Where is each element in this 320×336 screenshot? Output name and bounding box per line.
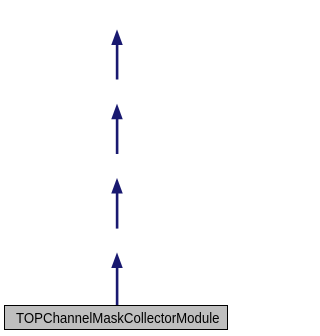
inheritance arrow 3: [111, 178, 123, 229]
node TOPChannelMaskCollectorModule (current class box): [5, 306, 228, 330]
svg-text:TOPChannelMaskCollectorModule: TOPChannelMaskCollectorModule: [16, 311, 220, 327]
inheritance arrow 4 (from TOPChannelMaskCollectorModule): [111, 252, 123, 305]
inheritance arrow 2: [111, 104, 123, 154]
inheritance arrow 1 (to topmost base class): [111, 29, 123, 79]
